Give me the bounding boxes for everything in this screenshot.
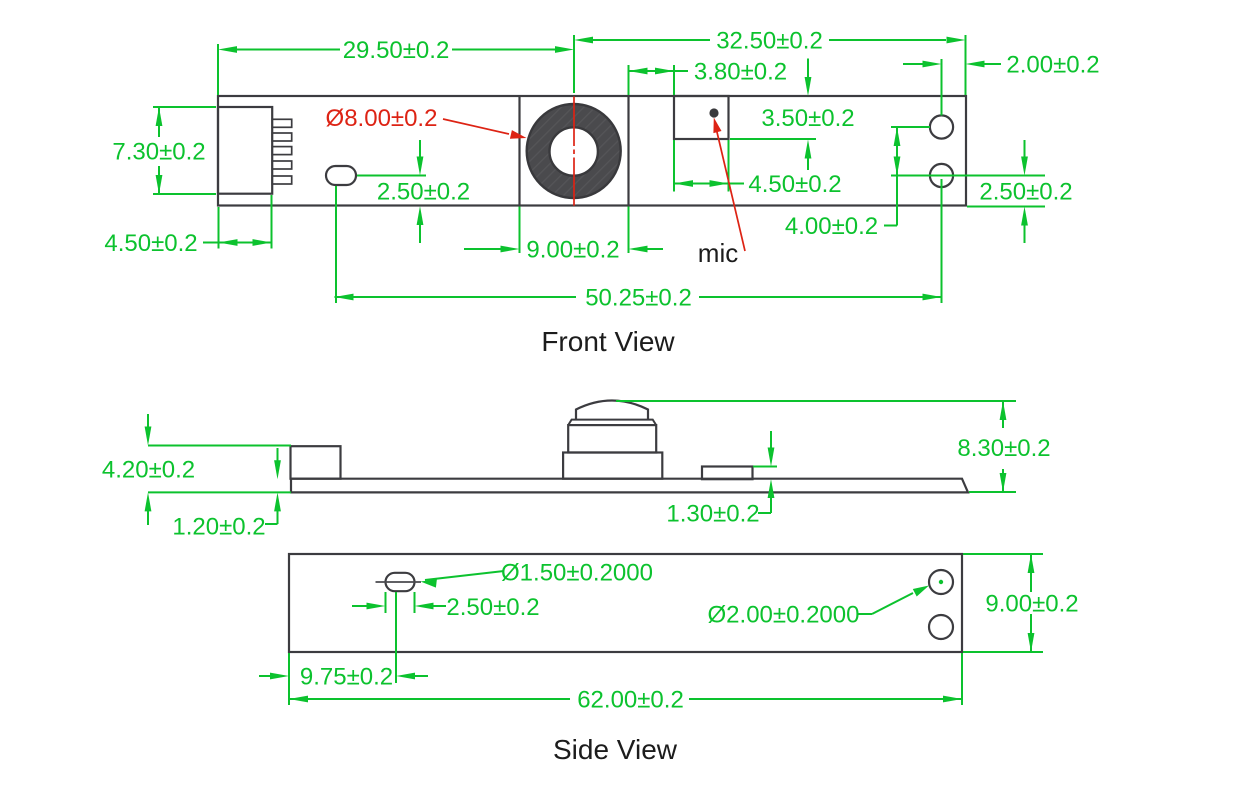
- svg-text:2.50±0.2: 2.50±0.2: [377, 179, 470, 206]
- svg-text:3.80±0.2: 3.80±0.2: [694, 59, 787, 86]
- svg-text:2.00±0.2: 2.00±0.2: [1006, 52, 1099, 79]
- svg-text:Front View: Front View: [541, 326, 675, 357]
- svg-text:Ø8.00±0.2: Ø8.00±0.2: [326, 105, 438, 132]
- svg-text:mic: mic: [698, 238, 738, 268]
- svg-text:9.75±0.2: 9.75±0.2: [300, 664, 393, 691]
- svg-text:9.00±0.2: 9.00±0.2: [985, 591, 1078, 618]
- svg-text:Side View: Side View: [553, 734, 678, 765]
- svg-text:4.50±0.2: 4.50±0.2: [104, 230, 197, 257]
- svg-text:Ø1.50±0.2000: Ø1.50±0.2000: [501, 560, 653, 587]
- svg-text:1.20±0.2: 1.20±0.2: [172, 514, 265, 541]
- svg-text:1.30±0.2: 1.30±0.2: [666, 501, 759, 528]
- svg-text:Ø2.00±0.2000: Ø2.00±0.2000: [708, 602, 860, 629]
- svg-text:2.50±0.2: 2.50±0.2: [446, 594, 539, 621]
- svg-text:7.30±0.2: 7.30±0.2: [112, 139, 205, 166]
- svg-text:2.50±0.2: 2.50±0.2: [979, 179, 1072, 206]
- svg-text:50.25±0.2: 50.25±0.2: [585, 285, 692, 312]
- svg-text:32.50±0.2: 32.50±0.2: [716, 28, 823, 55]
- svg-text:62.00±0.2: 62.00±0.2: [577, 687, 684, 714]
- svg-text:9.00±0.2: 9.00±0.2: [526, 237, 619, 264]
- svg-text:4.00±0.2: 4.00±0.2: [785, 213, 878, 240]
- svg-text:29.50±0.2: 29.50±0.2: [343, 37, 450, 64]
- svg-text:3.50±0.2: 3.50±0.2: [761, 105, 854, 132]
- svg-text:4.20±0.2: 4.20±0.2: [102, 457, 195, 484]
- svg-text:8.30±0.2: 8.30±0.2: [957, 435, 1050, 462]
- svg-text:4.50±0.2: 4.50±0.2: [748, 171, 841, 198]
